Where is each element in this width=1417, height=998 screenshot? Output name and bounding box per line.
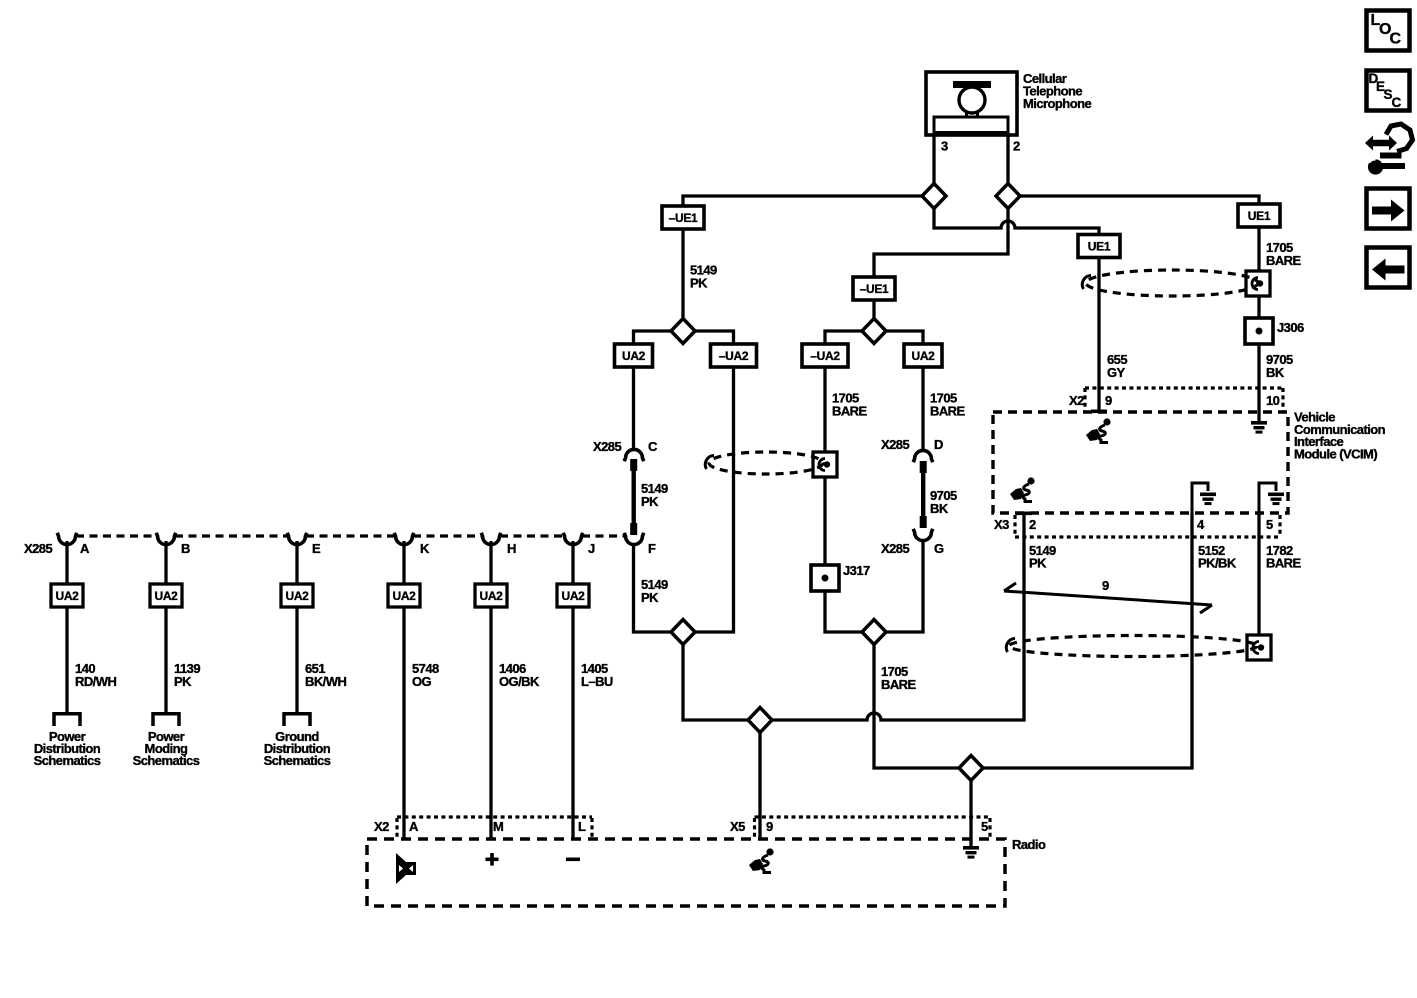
svg-text:PK: PK xyxy=(1029,556,1047,571)
svg-text:PK: PK xyxy=(641,494,659,509)
svg-text:Microphone: Microphone xyxy=(1023,96,1091,111)
svg-text:OG/BK: OG/BK xyxy=(499,674,540,689)
svg-text:BK: BK xyxy=(930,501,949,516)
svg-text:9: 9 xyxy=(1105,393,1112,408)
svg-text:Radio: Radio xyxy=(1012,837,1046,852)
svg-text:X285: X285 xyxy=(881,541,909,556)
svg-text:Schematics: Schematics xyxy=(264,753,331,768)
svg-text:BK: BK xyxy=(1266,365,1285,380)
svg-text:5: 5 xyxy=(1266,517,1273,532)
svg-text:GY: GY xyxy=(1107,365,1126,380)
svg-text:BARE: BARE xyxy=(832,404,868,419)
svg-text:J: J xyxy=(588,541,595,556)
svg-text:PK: PK xyxy=(641,590,659,605)
svg-text:X2: X2 xyxy=(374,819,389,834)
svg-text:BARE: BARE xyxy=(881,677,917,692)
svg-text:Schematics: Schematics xyxy=(34,753,101,768)
svg-text:4: 4 xyxy=(1197,517,1205,532)
svg-text:5: 5 xyxy=(981,819,988,834)
svg-text:2: 2 xyxy=(1013,139,1020,154)
svg-text:Module (VCIM): Module (VCIM) xyxy=(1294,446,1377,461)
svg-text:BARE: BARE xyxy=(1266,253,1302,268)
svg-text:L–BU: L–BU xyxy=(581,674,613,689)
svg-text:9: 9 xyxy=(1102,578,1109,593)
svg-text:E: E xyxy=(312,541,321,556)
svg-text:OG: OG xyxy=(412,674,432,689)
svg-text:C: C xyxy=(648,439,658,454)
svg-text:H: H xyxy=(507,541,516,556)
svg-text:M: M xyxy=(493,819,503,834)
svg-text:X5: X5 xyxy=(730,819,745,834)
svg-text:J306: J306 xyxy=(1277,320,1304,335)
svg-text:9: 9 xyxy=(766,819,773,834)
svg-text:A: A xyxy=(80,541,90,556)
svg-text:J317: J317 xyxy=(843,563,870,578)
svg-text:10: 10 xyxy=(1266,393,1280,408)
svg-text:Schematics: Schematics xyxy=(133,753,200,768)
svg-text:PK/BK: PK/BK xyxy=(1198,556,1237,571)
svg-text:X3: X3 xyxy=(994,517,1009,532)
svg-text:3: 3 xyxy=(941,139,948,154)
svg-text:B: B xyxy=(181,541,190,556)
svg-text:X285: X285 xyxy=(881,437,909,452)
svg-text:BK/WH: BK/WH xyxy=(305,674,346,689)
svg-text:G: G xyxy=(934,541,944,556)
svg-text:L: L xyxy=(578,819,586,834)
svg-text:2: 2 xyxy=(1029,517,1036,532)
svg-text:X2: X2 xyxy=(1069,393,1084,408)
svg-text:X285: X285 xyxy=(593,439,621,454)
svg-text:BARE: BARE xyxy=(930,404,966,419)
svg-text:D: D xyxy=(934,437,943,452)
svg-text:C: C xyxy=(1392,95,1402,110)
svg-text:X285: X285 xyxy=(24,541,52,556)
svg-text:C: C xyxy=(1390,31,1402,48)
svg-text:PK: PK xyxy=(690,276,708,291)
svg-text:RD/WH: RD/WH xyxy=(75,674,116,689)
svg-text:PK: PK xyxy=(174,674,192,689)
svg-text:A: A xyxy=(409,819,419,834)
svg-text:K: K xyxy=(420,541,430,556)
svg-text:F: F xyxy=(648,541,656,556)
svg-text:BARE: BARE xyxy=(1266,556,1302,571)
